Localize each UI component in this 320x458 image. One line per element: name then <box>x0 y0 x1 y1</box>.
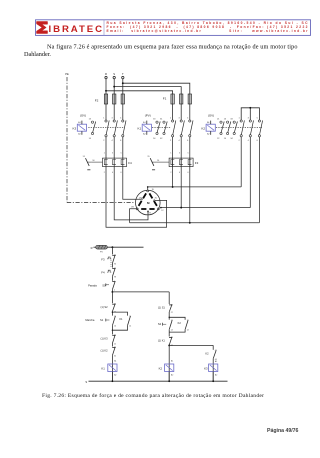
wire K1 out1 <box>172 137 174 187</box>
overload F4 label <box>128 161 132 165</box>
label S2 left <box>101 305 109 309</box>
svg-text:K2: K2 <box>178 321 182 325</box>
wire K3c2 to F4 <box>113 137 115 158</box>
caption <box>42 392 264 399</box>
contactor K1 aux contact b <box>160 118 167 139</box>
wire X2 seg6 <box>169 372 173 382</box>
svg-text:K1: K1 <box>138 126 142 130</box>
svg-text:14: 14 <box>171 330 173 332</box>
svg-text:(1) K3: (1) K3 <box>101 336 109 340</box>
junction rail K2 <box>168 380 170 382</box>
wire K1 out2 <box>180 137 182 208</box>
fuse F2 element b <box>113 94 116 105</box>
svg-text:R: R <box>105 72 107 76</box>
contactor K3 aux contact 13-14 <box>89 118 96 139</box>
motor terminal 1W <box>136 208 138 210</box>
label PV for K1 <box>145 113 151 117</box>
contactor K1 main contact 3 <box>187 117 193 142</box>
svg-text:K1: K1 <box>101 367 105 371</box>
contactor K1 aux contact a <box>153 118 160 139</box>
svg-text:32: 32 <box>114 356 116 358</box>
wire X1 seg5 <box>111 292 113 303</box>
junction rail K3 <box>212 380 214 382</box>
logo IBRATEC text <box>49 24 103 35</box>
svg-text:96: 96 <box>114 263 116 265</box>
wire F4 trip link <box>91 161 102 163</box>
coil K2 <box>206 121 215 136</box>
contact S0 NC pushbutton <box>106 281 116 292</box>
motor terminal 1V <box>141 199 159 213</box>
contact K3 NC left <box>112 335 116 346</box>
coil K3 <box>77 121 86 136</box>
label GV for K2 <box>208 113 214 117</box>
wire node 1W horizontal <box>130 222 260 224</box>
wire X1 seg6 <box>111 311 113 316</box>
wire X3 seg2 <box>213 358 217 381</box>
junction branch split <box>111 291 113 293</box>
wire X1 seg2 <box>111 263 113 268</box>
header address line1 <box>107 21 309 25</box>
paragraph line1 <box>47 43 298 50</box>
wire K2 out1 down <box>240 137 242 187</box>
svg-text:K2: K2 <box>201 126 205 130</box>
wire R to fuse <box>93 246 95 248</box>
junction sub split <box>168 344 170 346</box>
wire 1W hook <box>130 209 137 223</box>
contactor K2 main contact 3 <box>257 117 263 142</box>
wire X1 seg3 <box>111 276 113 281</box>
wire X2 seg2 <box>168 312 170 320</box>
svg-text:1: 1 <box>114 281 115 283</box>
wire X2 seg4 <box>168 344 170 347</box>
fuse F2 label <box>95 99 99 103</box>
wire X2 seg5 <box>169 345 173 381</box>
svg-text:14: 14 <box>129 326 131 328</box>
fuse F5 control <box>96 245 108 253</box>
wire 2W path <box>123 167 141 200</box>
svg-text:K3: K3 <box>73 126 77 130</box>
wire K2 out3 down <box>258 137 260 223</box>
svg-text:13: 13 <box>129 316 131 318</box>
junction K1 out2 <box>180 207 182 209</box>
wire F2b to K3 contact <box>113 104 115 120</box>
overload F4 pins top <box>104 153 122 155</box>
svg-text:13: 13 <box>114 316 116 318</box>
wire K2 parallel top <box>169 317 185 319</box>
junction parallel bottom <box>112 330 113 331</box>
contactor K3 main contact 3 <box>120 117 126 142</box>
svg-text:A2: A2 <box>171 373 173 376</box>
wire 2V path <box>114 167 148 220</box>
wire F1b to K1 contact <box>180 104 182 120</box>
svg-text:5: 5 <box>121 153 122 155</box>
fuse F2 element a <box>104 94 107 105</box>
overload F3 body <box>169 158 193 167</box>
svg-text:(1) K1: (1) K1 <box>158 339 166 343</box>
svg-text:2: 2 <box>170 172 171 174</box>
svg-text:A2: A2 <box>215 373 217 376</box>
svg-text:A1: A1 <box>114 360 116 363</box>
contact F3 NC control <box>107 255 116 266</box>
svg-text:95: 95 <box>147 156 149 158</box>
contactor K2 aux contact a <box>217 118 224 139</box>
label S1 NC <box>158 306 166 310</box>
wire K1 parallel bottom <box>112 325 127 330</box>
node PE label <box>65 72 69 76</box>
header email line3 <box>107 29 309 33</box>
motor label M <box>147 201 150 205</box>
junction 1U <box>147 186 149 188</box>
svg-text:K1: K1 <box>119 317 123 321</box>
svg-text:96: 96 <box>92 160 94 162</box>
motor M circle <box>136 190 161 215</box>
wire bottom rail <box>89 380 228 382</box>
svg-text:(1) S2: (1) S2 <box>101 305 109 309</box>
label K2 NC <box>101 349 109 353</box>
label K1 coil control <box>101 367 105 371</box>
svg-text:6: 6 <box>188 172 189 174</box>
label Parada S0 <box>88 283 106 287</box>
contactor K3 main contact 1 <box>103 117 109 142</box>
junction 1V <box>160 207 162 209</box>
wire F2c to K3 contact <box>122 104 124 120</box>
wire X1 seg4 <box>111 289 113 292</box>
wire S drop <box>113 79 115 94</box>
contact F4 NC control <box>107 260 116 279</box>
svg-text:Marcha: Marcha <box>85 318 94 322</box>
header box <box>36 20 311 36</box>
wire X1 seg7 <box>111 325 113 334</box>
svg-text:14: 14 <box>114 326 116 328</box>
label K3 coil <box>73 126 77 130</box>
wire T branch to F1 <box>123 83 190 94</box>
wire R drop <box>105 79 107 94</box>
junction R rail <box>111 246 113 248</box>
wire K2 parallel bottom <box>169 329 185 332</box>
wire K2 star bridge <box>241 108 259 120</box>
wire F1c to K1 contact <box>189 104 191 120</box>
svg-text:(GV): (GV) <box>208 113 214 117</box>
motor stub 1U <box>147 187 149 190</box>
wire 2U path <box>106 167 167 228</box>
wire F1a to K1 contact <box>172 104 174 120</box>
svg-text:(GV): (GV) <box>80 113 86 117</box>
svg-text:5: 5 <box>188 153 189 155</box>
contact K2 NO sub <box>213 350 217 361</box>
node S phase terminal <box>113 72 115 79</box>
junction T branch <box>122 82 124 84</box>
overload F4 element a <box>104 158 107 168</box>
svg-text:A2: A2 <box>114 373 116 376</box>
label K3 coil control <box>204 367 208 371</box>
contactor K1 main contact 2 <box>178 117 184 142</box>
label K2 NO sub <box>205 352 209 356</box>
coil K2 control <box>165 364 174 372</box>
logo sigma S glyph <box>37 22 48 34</box>
junction bridge mid <box>249 107 251 109</box>
svg-text:4: 4 <box>112 172 113 174</box>
fuse F1 element a <box>171 94 174 105</box>
svg-text:Página 49/76: Página 49/76 <box>267 428 299 434</box>
svg-text:21: 21 <box>114 335 116 337</box>
junction K1 out1 <box>172 186 174 188</box>
coil K1 control <box>108 364 117 372</box>
wire X3 seg3 <box>213 372 217 382</box>
svg-text:43: 43 <box>215 350 217 352</box>
svg-text:F3: F3 <box>101 257 105 261</box>
svg-text:S2: S2 <box>158 322 162 326</box>
svg-text:S: S <box>85 380 87 384</box>
contact K1 selfhold NO <box>128 316 132 328</box>
wire K1 parallel top <box>112 312 127 316</box>
overload F3 pins bottom <box>170 172 188 174</box>
svg-text:(PV): (PV) <box>145 113 151 117</box>
junction K1 out3 <box>189 222 191 224</box>
junction S branch <box>113 86 115 88</box>
motor winding top-left <box>139 193 147 206</box>
wire T drop <box>122 79 124 94</box>
fuse F1 element c <box>188 94 191 105</box>
label F3 control <box>101 257 105 261</box>
contact K2 NC left <box>112 347 116 358</box>
svg-text:F4: F4 <box>101 271 105 275</box>
svg-text:1: 1 <box>104 153 105 155</box>
svg-text:(1) K2: (1) K2 <box>101 349 109 353</box>
wire K3c3 to F4 <box>122 137 124 158</box>
contact S2 NO right <box>163 320 173 332</box>
contact K2 selfhold NO <box>185 320 189 332</box>
svg-text:3: 3 <box>112 153 113 155</box>
junction parallel top <box>112 311 113 312</box>
junction rail K1 <box>112 380 114 382</box>
wire X2 drop <box>168 292 170 304</box>
overload F4 trip contact <box>83 156 95 170</box>
linkage K2 dashed <box>216 127 262 129</box>
svg-text:1W: 1W <box>131 206 134 208</box>
node R phase terminal <box>105 72 107 79</box>
svg-text:Fig. 7.26: Esquema de força e: Fig. 7.26: Esquema de força e de comando… <box>42 392 264 399</box>
svg-text:(1) S1: (1) S1 <box>158 306 166 310</box>
label K1 NC <box>158 339 166 343</box>
contact S1 NC right <box>169 304 173 314</box>
svg-text:6: 6 <box>121 172 122 174</box>
wire X1 seg9 <box>112 355 116 381</box>
svg-text:3: 3 <box>179 153 180 155</box>
wire PE horizontal dash-dot <box>67 202 135 204</box>
coil K3 control <box>209 364 218 372</box>
label K3 NC <box>101 336 109 340</box>
svg-text:K2: K2 <box>205 352 209 356</box>
wire X1 seg8 <box>111 343 113 347</box>
svg-text:21: 21 <box>171 337 173 339</box>
junction R branch <box>105 90 107 92</box>
wire X3 drop <box>212 345 214 349</box>
label K2 coil <box>201 126 205 130</box>
svg-text:21: 21 <box>114 304 116 306</box>
wire sub branch horizontal <box>169 344 213 346</box>
motor terminal 1U <box>147 190 149 192</box>
overload F4 pins bottom <box>104 172 122 174</box>
svg-text:PE: PE <box>65 72 69 76</box>
contact S1 NO Marcha <box>106 316 116 328</box>
label K1 coil <box>138 126 142 130</box>
junction parallel2 top <box>169 317 170 318</box>
overload F3 element b <box>180 158 183 168</box>
svg-text:F4: F4 <box>128 161 132 165</box>
overload F3 trip contact <box>147 156 159 170</box>
wire K3c1 to F4 <box>105 137 107 158</box>
overload F4 body <box>103 158 127 167</box>
contactor K3 main contact 2 <box>111 117 117 142</box>
svg-text:98: 98 <box>114 277 116 279</box>
contactor K1 main contact 1 <box>170 117 176 142</box>
svg-text:2W: 2W <box>139 197 142 199</box>
svg-text:2: 2 <box>104 172 105 174</box>
svg-text:14: 14 <box>187 330 189 332</box>
svg-text:13: 13 <box>187 320 189 322</box>
contactor K2 main contact 2 <box>248 117 254 142</box>
svg-text:S: S <box>113 72 115 76</box>
overload F3 label <box>195 161 199 165</box>
svg-text:2: 2 <box>114 290 115 292</box>
svg-text:K2: K2 <box>159 367 163 371</box>
svg-text:F2: F2 <box>95 99 99 103</box>
wire node 1U horizontal <box>148 186 242 188</box>
svg-text:96: 96 <box>157 160 159 162</box>
header divider <box>103 20 105 36</box>
wire R branch to F1 <box>106 91 173 94</box>
svg-text:K3: K3 <box>204 367 208 371</box>
overload F4 element c <box>121 158 124 168</box>
label S2 right <box>158 322 162 326</box>
contact S2 NC left <box>112 304 116 314</box>
svg-text:F3: F3 <box>195 161 199 165</box>
svg-text:4: 4 <box>179 172 180 174</box>
footer page number <box>267 428 299 434</box>
wire R rail <box>107 246 143 248</box>
svg-text:22: 22 <box>114 343 116 345</box>
wire K2 out2 down <box>249 137 251 208</box>
fuse F1 element b <box>180 94 183 105</box>
svg-text:22: 22 <box>171 312 173 314</box>
fuse F1 label <box>163 97 167 101</box>
svg-text:1: 1 <box>170 153 171 155</box>
wire X2 seg3 <box>168 329 170 336</box>
label K1 selfhold <box>119 317 123 321</box>
svg-text:F1: F1 <box>163 97 167 101</box>
svg-text:Dahlander.: Dahlander. <box>24 51 51 58</box>
wire PE vertical dash-dot <box>66 77 68 203</box>
label Marcha S1 <box>85 318 103 322</box>
svg-text:A1: A1 <box>171 360 173 363</box>
motor winding bottom <box>141 208 154 210</box>
wire K1 out3 <box>189 137 191 223</box>
wire S branch to F1 <box>114 87 181 94</box>
label GV for K3 <box>80 113 86 117</box>
motor winding top-right <box>149 193 157 206</box>
paragraph line2 <box>24 51 51 58</box>
svg-text:97: 97 <box>114 268 116 270</box>
node R control <box>91 246 93 250</box>
overload F4 element b <box>113 158 116 168</box>
svg-text:Na figura 7.26 é apresentado u: Na figura 7.26 é apresentado um esquema … <box>47 43 298 50</box>
linkage K1 dashed <box>152 127 171 129</box>
svg-text:Email: sibratec@sibratec.ind: Email: sibratec@sibratec.ind.br Site: ww… <box>107 29 309 33</box>
node S bottom rail label <box>85 380 87 384</box>
overload F3 pins top <box>170 153 188 155</box>
contact K1 NC right <box>169 337 173 347</box>
overload F3 element a <box>171 158 174 168</box>
wire F3 trip link <box>156 161 169 163</box>
svg-text:S0: S0 <box>102 283 106 287</box>
wire X1 seg1 <box>111 247 113 254</box>
contactor K2 aux contact b <box>224 118 231 139</box>
svg-text:S1: S1 <box>100 318 104 322</box>
svg-text:R: R <box>91 246 93 250</box>
svg-text:Parada: Parada <box>88 283 97 287</box>
wire X1 seg10 <box>112 372 116 382</box>
svg-text:A1: A1 <box>215 360 217 363</box>
overload F3 element c <box>188 158 191 168</box>
wire branch horizontal <box>112 291 169 293</box>
svg-text:95: 95 <box>83 156 85 158</box>
wire node 1V horizontal <box>161 207 250 209</box>
svg-text:13: 13 <box>171 320 173 322</box>
node T phase terminal <box>122 72 124 79</box>
label K2 selfhold <box>178 321 182 325</box>
linkage K3 dashed <box>88 127 124 129</box>
svg-text:95: 95 <box>114 255 116 257</box>
contactor K2 aux contact c <box>230 118 237 139</box>
wire F2a to K3 contact <box>105 104 107 120</box>
header phones line2 <box>107 25 308 29</box>
svg-text:31: 31 <box>114 347 116 349</box>
label K2 coil control <box>159 367 163 371</box>
label F4 control <box>101 271 105 275</box>
motor terminal labels <box>131 189 164 215</box>
contactor K2 main contact 1 <box>238 117 244 142</box>
fuse F2 element c <box>121 94 124 105</box>
coil K1 <box>142 121 151 136</box>
svg-text:21: 21 <box>171 304 173 306</box>
